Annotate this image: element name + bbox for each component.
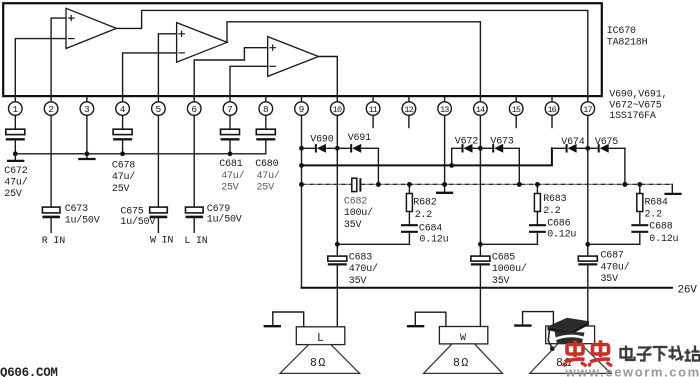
svg-text:2.2: 2.2: [415, 210, 433, 221]
svg-text:470u/: 470u/: [601, 261, 630, 273]
svg-text:15: 15: [512, 105, 521, 115]
svg-text:Q606.COM: Q606.COM: [0, 366, 58, 377]
svg-text:L IN: L IN: [184, 236, 207, 247]
diode V674: [552, 137, 588, 153]
watermark red insect character 2: [589, 340, 612, 366]
svg-text:47u/: 47u/: [221, 170, 244, 182]
svg-text:14: 14: [476, 105, 485, 115]
svg-text:C686: C686: [547, 218, 570, 229]
svg-text:IC670: IC670: [607, 26, 636, 37]
svg-text:1u/50V: 1u/50V: [120, 216, 155, 228]
svg-text:C672: C672: [4, 166, 27, 177]
wire pin10 column: [336, 115, 338, 256]
pin 15: [509, 97, 523, 115]
wire V675 to ripple line: [623, 148, 628, 187]
node V675 anode on ripple line: [623, 182, 628, 187]
svg-text:100u/: 100u/: [344, 207, 373, 219]
svg-text:2.2: 2.2: [543, 206, 561, 217]
svg-text:35V: 35V: [601, 274, 619, 285]
capacitor C684: [337, 223, 448, 245]
node V691 anode on ripple line: [376, 182, 381, 187]
svg-text:C685: C685: [492, 252, 515, 263]
pin 6: [187, 102, 201, 116]
pin 17: [581, 97, 595, 115]
pin 1: [9, 102, 23, 116]
IC670 outline box: [3, 3, 602, 96]
svg-text:17: 17: [583, 105, 592, 115]
ground under pin13: [436, 184, 453, 192]
node pin9 mute line junction: [299, 163, 304, 168]
svg-text:47u/: 47u/: [112, 171, 135, 183]
node pin10 diode junction: [335, 146, 340, 151]
op-amp U1c: [268, 37, 319, 77]
svg-text:R684: R684: [645, 197, 668, 208]
svg-text:26V: 26V: [678, 285, 698, 297]
svg-text:V675: V675: [595, 137, 618, 148]
watermark graduation-cap logo: [548, 318, 590, 351]
node pin9 diode row junction: [299, 146, 304, 151]
svg-text:C688: C688: [649, 222, 672, 233]
wire U1b output to pin14: [227, 22, 480, 102]
svg-text:10: 10: [333, 105, 342, 115]
speaker W: [424, 327, 503, 374]
watermark site-name glyph zai: [669, 346, 684, 361]
capacitor C678: [112, 115, 135, 194]
pin 8: [259, 97, 273, 115]
svg-text:C682: C682: [344, 196, 367, 207]
resistor R684: [637, 182, 668, 224]
svg-text:V690,V691,: V690,V691,: [609, 90, 667, 101]
wire pin5 to U1b non-inverting input: [158, 34, 176, 102]
capacitor C672: [4, 115, 27, 200]
svg-text:C679: C679: [207, 204, 230, 215]
svg-text:V672~V675: V672~V675: [609, 100, 661, 111]
watermark site-name glyph zhan: [685, 346, 700, 362]
op-amp U1b: [177, 23, 227, 63]
capacitor C686: [480, 218, 576, 244]
ground for speaker W: [407, 312, 446, 326]
svg-text:12: 12: [404, 105, 413, 115]
svg-text:47u/: 47u/: [4, 177, 27, 189]
svg-text:C687: C687: [601, 251, 624, 262]
diode V690: [302, 135, 338, 153]
pin 13: [438, 97, 452, 115]
svg-text:8Ω: 8Ω: [310, 357, 327, 370]
node pin13 on ripple line: [442, 182, 447, 187]
svg-text:TA8218H: TA8218H: [607, 37, 648, 48]
watermark red insect character 1: [564, 340, 587, 366]
diode V691: [337, 133, 378, 153]
pin 12: [402, 97, 416, 115]
svg-text:8: 8: [263, 104, 269, 115]
wire pin13 to ripple line: [442, 115, 447, 186]
pin 5: [152, 102, 166, 116]
node pin3 to bus: [85, 115, 90, 156]
svg-text:11: 11: [369, 105, 378, 115]
capacitor C683: [328, 242, 378, 327]
wire V673 to ripple line: [517, 148, 522, 187]
svg-text:16: 16: [547, 105, 556, 115]
pin 10: [331, 102, 345, 116]
pin 16: [545, 97, 559, 115]
resistor R683: [534, 182, 566, 224]
watermark site-name glyph zi: [637, 348, 652, 361]
op-amp U1a: [66, 8, 116, 48]
diode part-number note V690 V691 V672~V675 1SS176FA: [609, 90, 667, 123]
watermark site-name glyph dian: [621, 346, 635, 361]
watermark site-name glyph xia: [653, 347, 668, 362]
svg-text:C673: C673: [65, 204, 88, 215]
wire ripple line left segment: [302, 183, 352, 185]
node pin9 ripple line junction: [299, 182, 304, 187]
svg-text:V672: V672: [455, 136, 478, 147]
svg-text:9: 9: [299, 104, 305, 115]
svg-text:35V: 35V: [349, 276, 367, 287]
svg-text:C683: C683: [349, 252, 372, 263]
wire pin7 to U1c inverting input: [230, 66, 268, 102]
ground at right end of ripple line: [664, 184, 681, 194]
svg-text:C675: C675: [120, 207, 143, 218]
svg-text:1000u/: 1000u/: [492, 263, 527, 275]
wire pin9 column down to 26V rail corner: [301, 115, 303, 287]
svg-text:2.2: 2.2: [645, 209, 663, 220]
svg-text:25V: 25V: [4, 189, 22, 200]
svg-text:5: 5: [156, 104, 162, 115]
capacitor C688: [588, 222, 679, 245]
wire pin1 to U1a inverting input: [15, 39, 66, 102]
svg-text:R683: R683: [543, 194, 566, 205]
speaker R: [530, 326, 611, 373]
diode V675: [588, 137, 625, 153]
svg-text:1u/50V: 1u/50V: [65, 214, 100, 226]
wire ripple line right segment: [361, 183, 672, 185]
capacitor C680: [255, 115, 280, 193]
svg-text:6: 6: [191, 104, 197, 115]
svg-text:R IN: R IN: [42, 236, 65, 247]
capacitor C687: [578, 242, 629, 326]
pin 15 stub: [515, 115, 517, 127]
resistor R682: [406, 182, 436, 224]
pin 4: [116, 102, 130, 116]
pin 9: [295, 97, 309, 115]
wire U1a output to pin17: [116, 10, 587, 101]
wire V691 to ripple line: [376, 148, 381, 187]
svg-text:47u/: 47u/: [257, 170, 280, 182]
wire -26V supply rail: [302, 287, 673, 289]
svg-text:2: 2: [48, 104, 54, 115]
svg-text:L: L: [317, 332, 324, 345]
svg-text:470u/: 470u/: [349, 263, 378, 275]
node pin9 on ripple line: [299, 182, 304, 187]
pin 2: [44, 102, 58, 116]
wire pin4 to U1b inverting input: [123, 53, 177, 102]
svg-text:0.12u: 0.12u: [547, 229, 576, 240]
ground for speaker L: [264, 312, 304, 327]
node pin14 diode junction: [478, 115, 483, 256]
svg-text:8Ω: 8Ω: [453, 357, 470, 370]
svg-text:4: 4: [120, 104, 126, 115]
capacitor C675: [120, 115, 167, 232]
svg-text:V690: V690: [310, 135, 333, 146]
svg-text:W IN: W IN: [150, 235, 173, 246]
capacitor C681: [219, 115, 244, 193]
wire pin6 to U1c non-inverting input: [194, 48, 268, 102]
node V673 anode on ripple line: [517, 182, 522, 187]
wire U1c output to pin10: [319, 57, 338, 102]
pin 16 stub: [551, 115, 553, 127]
svg-text:C681: C681: [219, 159, 242, 170]
pin 11: [366, 97, 380, 115]
svg-text:35V: 35V: [492, 276, 510, 287]
wire pin2 to U1a non-inverting input: [51, 18, 66, 102]
wire mute line pin9 to V674: [302, 148, 552, 165]
svg-text:35V: 35V: [344, 220, 362, 231]
svg-text:V691: V691: [348, 133, 371, 144]
svg-text:0.12u: 0.12u: [649, 234, 678, 245]
capacitor C673: [42, 115, 99, 232]
capacitor C679: [186, 115, 242, 232]
svg-text:V674: V674: [561, 137, 584, 148]
wire V672 riser to mute line: [449, 148, 454, 168]
svg-text:R682: R682: [413, 197, 436, 208]
speaker L: [280, 327, 360, 374]
pin 3: [80, 97, 94, 115]
svg-text:7: 7: [227, 104, 233, 115]
pin 11 stub: [372, 115, 374, 127]
svg-text:C680: C680: [255, 159, 278, 170]
ground for speaker R: [514, 312, 553, 326]
wire AC-ground bus: [15, 153, 265, 155]
svg-text:25V: 25V: [221, 182, 239, 193]
pin 14: [474, 102, 488, 116]
pin 12 stub: [408, 115, 410, 127]
svg-text:1u/50V: 1u/50V: [207, 214, 242, 226]
svg-text:13: 13: [440, 105, 449, 115]
pin 7: [223, 102, 237, 116]
svg-text:3: 3: [84, 104, 90, 115]
svg-text:C684: C684: [419, 223, 442, 234]
svg-text:W: W: [460, 333, 466, 344]
svg-text:C678: C678: [112, 161, 135, 172]
capacitor C682: [344, 178, 373, 231]
node pin17 diode junction: [585, 115, 590, 256]
diode V673: [480, 136, 519, 152]
capacitor C685: [471, 242, 527, 327]
svg-text:V673: V673: [490, 136, 513, 147]
svg-text:1: 1: [12, 104, 18, 115]
ground under C672: [7, 154, 24, 161]
svg-text:0.12u: 0.12u: [419, 234, 448, 245]
svg-text:25V: 25V: [112, 184, 130, 195]
IC label IC670 TA8218H: [607, 26, 648, 48]
svg-text:1SS176FA: 1SS176FA: [609, 111, 656, 122]
ground under pin 3: [78, 154, 95, 159]
svg-text:www.eeworm.com: www.eeworm.com: [565, 365, 700, 377]
svg-text:25V: 25V: [257, 182, 275, 193]
diode V672: [452, 136, 481, 152]
